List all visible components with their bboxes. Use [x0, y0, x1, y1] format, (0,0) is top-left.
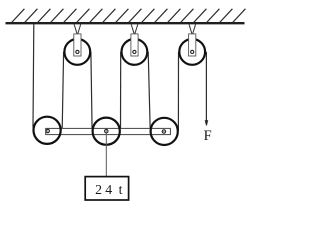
fixed pulley 3 axle	[191, 50, 194, 53]
svg-text:t: t	[119, 182, 123, 197]
hook V of fixed pulley 3	[189, 24, 196, 33]
hook V of fixed pulley 1	[74, 24, 81, 33]
svg-text:F: F	[204, 128, 212, 144]
pin of movable pulley 2	[105, 129, 108, 132]
load label 24 t	[95, 182, 123, 197]
svg-text:4: 4	[105, 182, 112, 197]
fixed pulley 3 wheel	[179, 39, 205, 65]
rope: movable pulley 1 right up to fixed pulley 1 left	[62, 52, 63, 129]
load box	[85, 177, 128, 200]
rope: movable pulley 3 right up to fixed pulley 3 left	[177, 52, 179, 131]
rope: movable pulley 2 right up to fixed pulley 2 left	[120, 52, 122, 130]
fixed pulley 1 bracket	[74, 34, 81, 56]
svg-text:2: 2	[95, 182, 102, 197]
rope: fixed pulley 1 right down to movable pulley 2 left	[91, 52, 92, 130]
hook V of fixed pulley 2	[131, 24, 138, 33]
force arrowhead	[205, 120, 208, 125]
rope: fixed pulley 2 right down to movable pulley 3 left	[148, 52, 150, 130]
fixed pulley 2 bracket	[131, 34, 138, 56]
connecting bar across movable pulleys	[46, 128, 171, 134]
pin of movable pulley 1	[46, 129, 49, 132]
movable pulley 1 wheel	[34, 117, 61, 144]
rope: free end from fixed pulley 3 right (pull side)	[205, 52, 207, 124]
fixed pulley 3 bracket	[189, 34, 196, 56]
movable pulley 2 wheel	[93, 118, 120, 145]
rope: ceiling anchor down to movable pulley 1 left	[32, 24, 35, 127]
movable pulley 3 wheel	[151, 118, 178, 145]
fixed pulley 2 wheel	[121, 39, 147, 65]
ceiling hatching	[12, 9, 246, 23]
fixed pulley 1 axle	[76, 50, 79, 53]
pin of movable pulley 3	[162, 130, 165, 133]
hanger line from bar to load	[105, 133, 107, 177]
fixed pulley 1 wheel	[64, 39, 90, 65]
fixed pulley 2 axle	[133, 50, 136, 53]
ceiling	[6, 22, 245, 24]
